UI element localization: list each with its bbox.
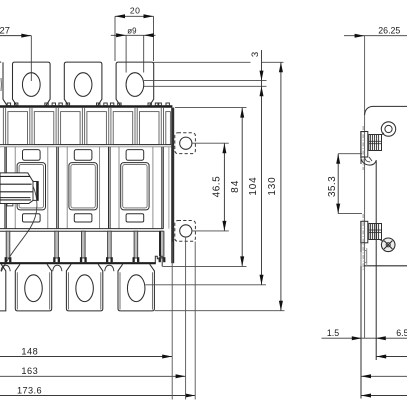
svg-text:ø9: ø9 bbox=[127, 26, 137, 35]
svg-text:35.3: 35.3 bbox=[327, 176, 338, 197]
svg-text:1.5: 1.5 bbox=[327, 328, 339, 338]
svg-text:6.5: 6.5 bbox=[396, 328, 407, 338]
svg-text:3: 3 bbox=[250, 52, 261, 57]
svg-text:163: 163 bbox=[21, 366, 38, 376]
svg-text:130: 130 bbox=[267, 177, 278, 196]
svg-text:173.6: 173.6 bbox=[17, 385, 42, 395]
svg-text:26.25: 26.25 bbox=[378, 26, 400, 36]
svg-text:104: 104 bbox=[248, 177, 259, 196]
svg-text:84: 84 bbox=[230, 179, 241, 193]
svg-text:27: 27 bbox=[0, 24, 10, 35]
svg-text:148: 148 bbox=[21, 346, 38, 356]
svg-text:46.5: 46.5 bbox=[211, 176, 222, 197]
svg-text:20: 20 bbox=[130, 6, 141, 16]
